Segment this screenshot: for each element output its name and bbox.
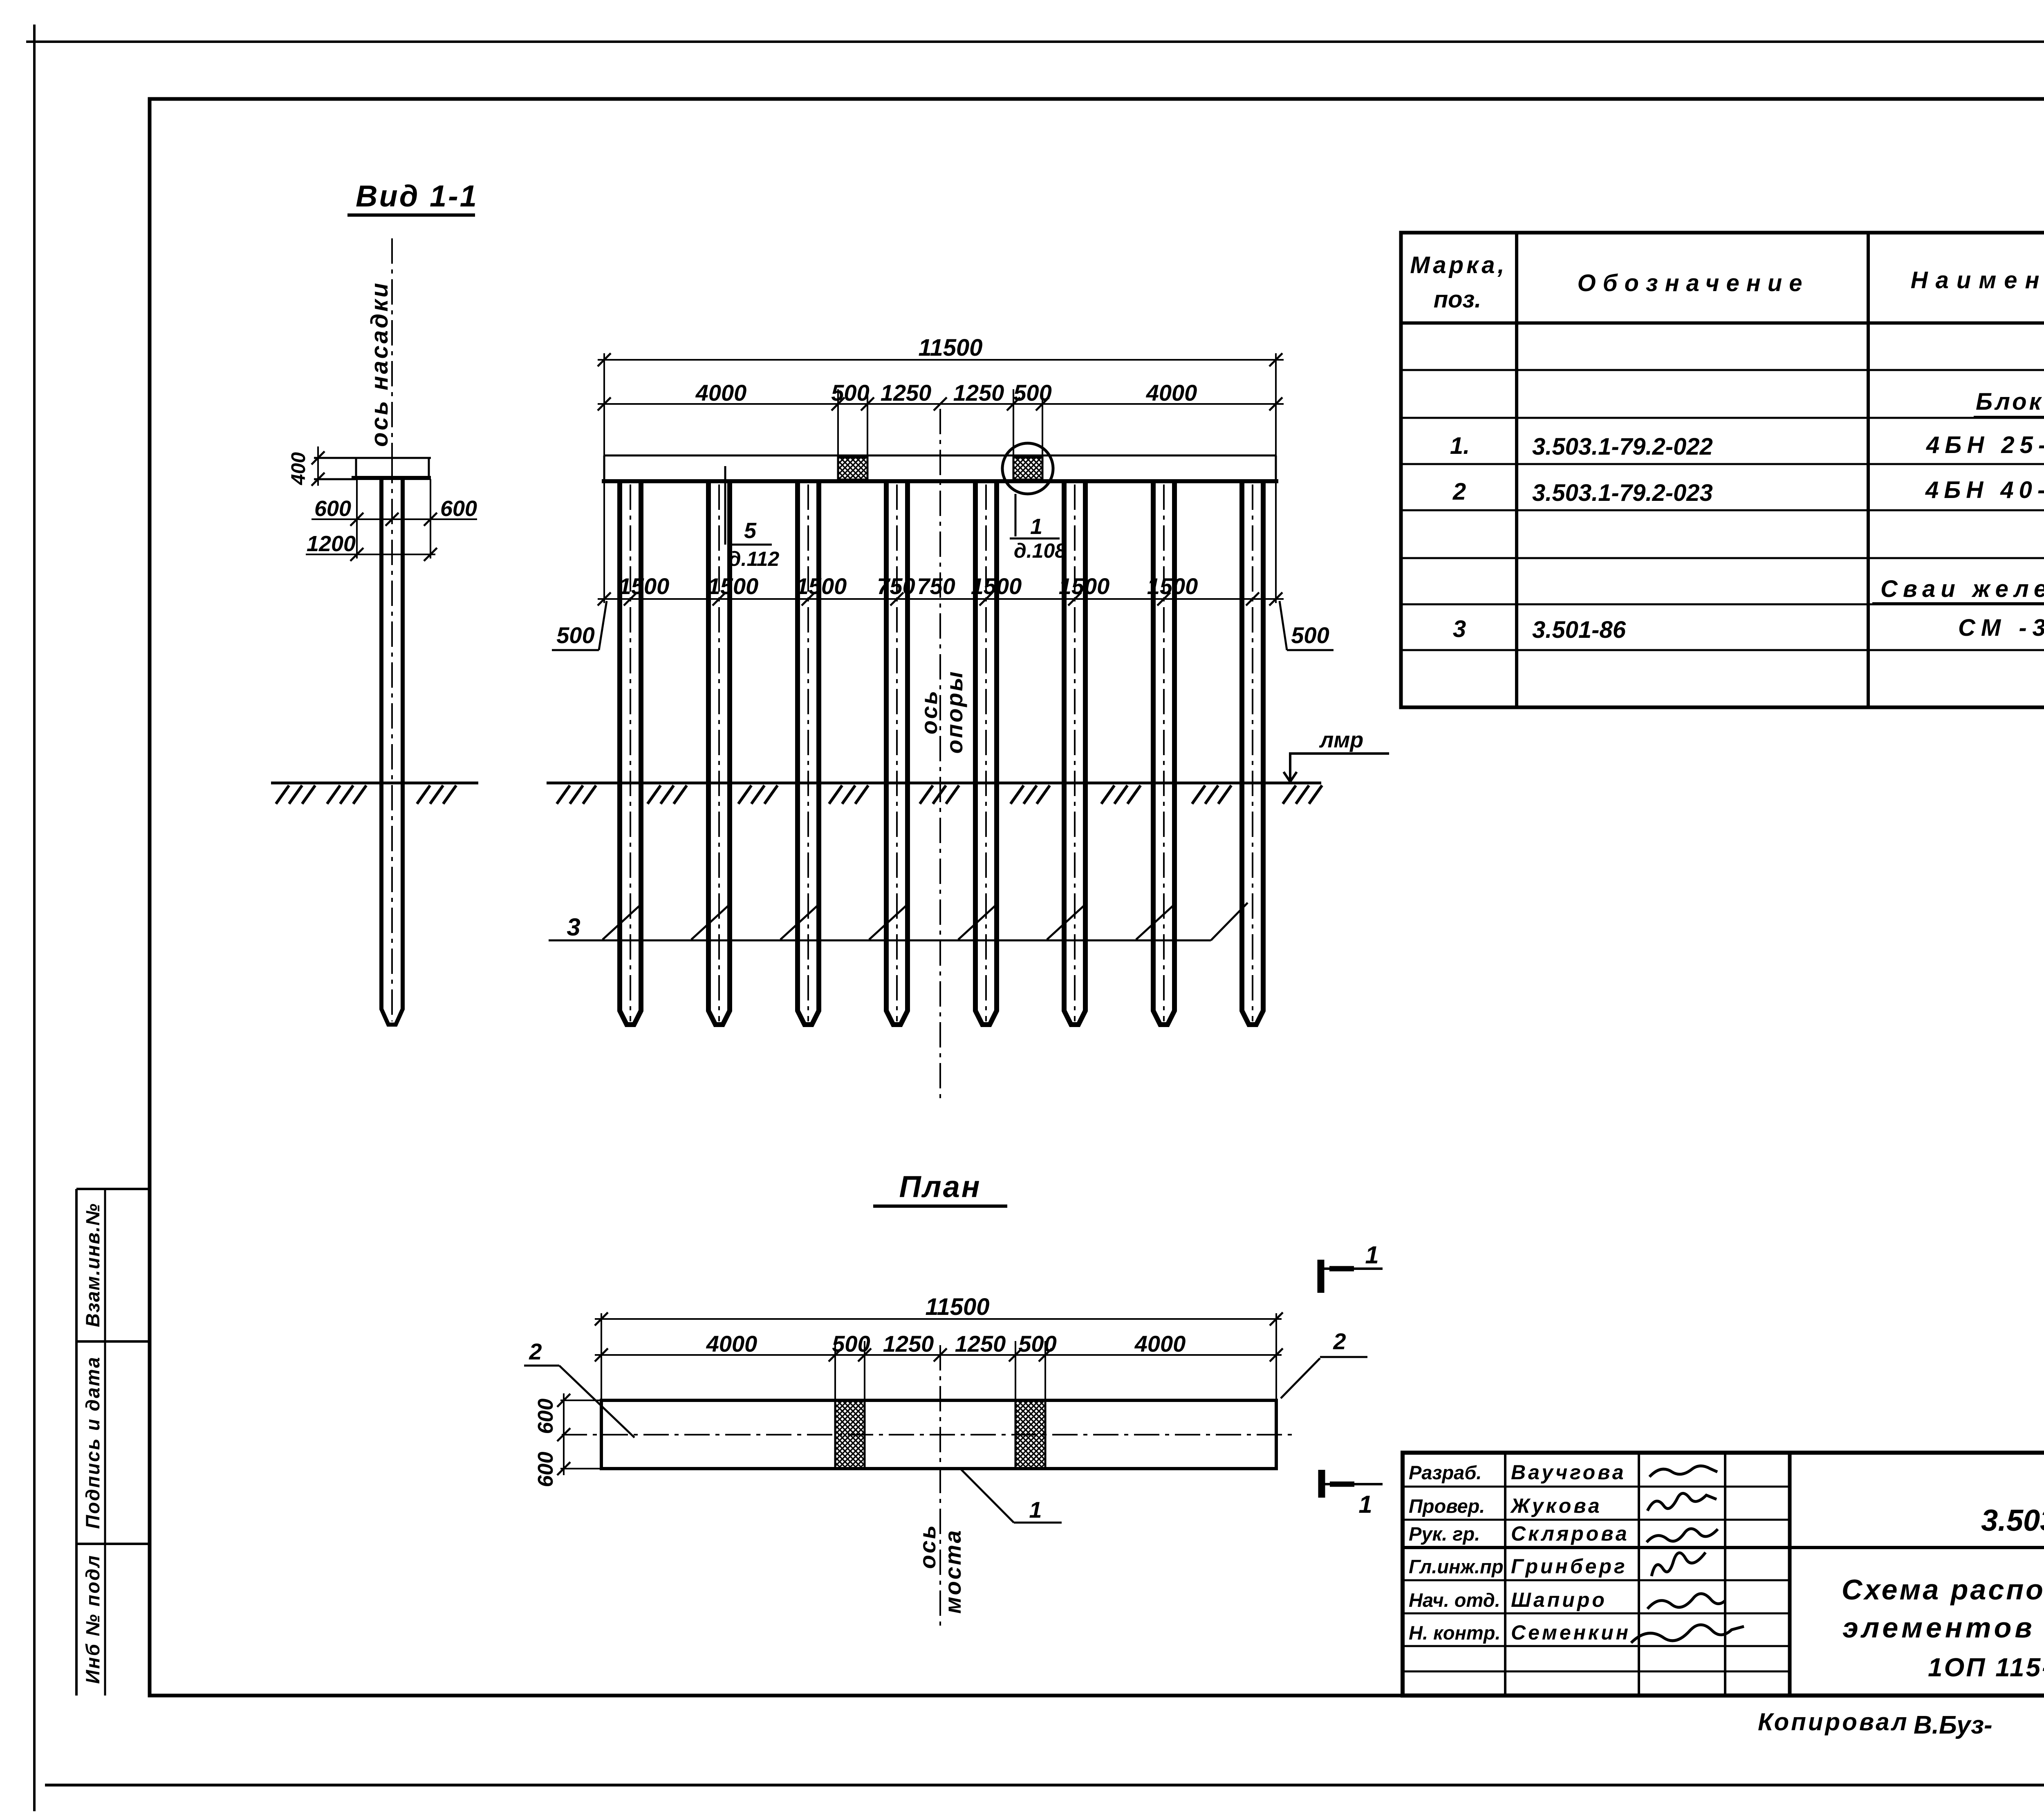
svg-text:1: 1 [1030, 514, 1042, 539]
pile of view 1-1 [381, 478, 403, 1025]
svg-text:1: 1 [1029, 1497, 1042, 1523]
dimension row 4000 500 1250 1250 500 4000 (plan) [595, 1354, 1282, 1356]
svg-text:4БН 40-1-1: 4БН 40-1-1 [1925, 477, 2044, 503]
svg-text:3: 3 [567, 913, 580, 941]
svg-text:750: 750 [917, 573, 955, 599]
pile spacing dimension row 1500... [598, 598, 1284, 600]
sidebar stamp box [75, 1189, 78, 1696]
svg-text:ось насадки: ось насадки [366, 281, 393, 447]
bridge axis (ось моста) [939, 1345, 941, 1631]
svg-text:д.112: д.112 [728, 547, 780, 570]
svg-text:4000: 4000 [706, 1331, 758, 1357]
svg-text:5: 5 [744, 518, 757, 543]
dimension 600 600 [312, 518, 477, 520]
pile 7 (elevation) [1153, 482, 1174, 1025]
svg-text:ось: ось [916, 689, 942, 735]
svg-text:Рук. гр.: Рук. гр. [1409, 1523, 1480, 1545]
plan hatched block left [835, 1400, 865, 1469]
title block frame [1403, 1453, 2044, 1696]
cap beam (elevation) [604, 455, 1276, 457]
ground line under view 1-1 [271, 782, 478, 785]
svg-text:Вид 1-1: Вид 1-1 [356, 179, 478, 213]
signature [1647, 1493, 1717, 1511]
pile 4 (elevation) [886, 482, 908, 1025]
pile 1 (elevation) [620, 482, 641, 1025]
svg-text:Гринберг: Гринберг [1511, 1555, 1627, 1578]
plan centerline [562, 1434, 1295, 1435]
svg-text:Шапиро: Шапиро [1511, 1588, 1607, 1611]
svg-text:опоры: опоры [941, 670, 967, 754]
section mark 1 top [1318, 1260, 1325, 1293]
svg-text:Жукова: Жукова [1510, 1494, 1602, 1517]
pier axis (ось опоры) [939, 409, 941, 1100]
signature [1650, 1466, 1717, 1477]
outer border top line [26, 40, 2044, 43]
dimension 11500 (elevation) [598, 359, 1284, 361]
svg-text:1500: 1500 [1059, 573, 1110, 599]
svg-text:500: 500 [831, 380, 869, 406]
leader 1/д.108 [1015, 494, 1017, 536]
svg-text:Гл.инж.пр: Гл.инж.пр [1409, 1556, 1504, 1577]
svg-text:3.501-86: 3.501-86 [1532, 617, 1626, 643]
pile 5 (elevation) [975, 482, 997, 1025]
svg-text:3: 3 [1453, 616, 1466, 642]
svg-text:Нач. отд.: Нач. отд. [1409, 1589, 1500, 1611]
svg-text:Наименование: Наименование [1911, 267, 2044, 294]
extension lines cap edges [356, 479, 358, 558]
pile 2 (elevation) [708, 482, 730, 1025]
svg-text:1200: 1200 [307, 532, 356, 556]
svg-text:11500: 11500 [919, 334, 983, 361]
dimension 400 (cap height) [317, 446, 319, 486]
svg-text:2: 2 [1333, 1328, 1346, 1354]
svg-text:План: План [899, 1170, 981, 1204]
outer border bottom line [45, 1784, 2044, 1787]
pile 3 (elevation) [798, 482, 819, 1025]
svg-text:3.503.1-79.2-023: 3.503.1-79.2-023 [1532, 480, 1713, 506]
detail circle [1002, 443, 1053, 494]
svg-text:Провер.: Провер. [1409, 1495, 1485, 1517]
svg-text:4БН 25-1-3: 4БН 25-1-3 [1926, 432, 2044, 458]
section mark 1 bottom [1318, 1470, 1325, 1498]
svg-text:В.Буз-: В.Буз- [1914, 1711, 1992, 1739]
svg-text:моста: моста [940, 1529, 966, 1614]
svg-text:1500: 1500 [971, 573, 1022, 599]
svg-text:элементов опоры: элементов опоры [1842, 1612, 2044, 1644]
components table frame [1401, 233, 2044, 707]
svg-text:2: 2 [1452, 478, 1466, 505]
svg-text:1: 1 [1365, 1241, 1378, 1269]
dimension 11500 (plan) [595, 1318, 1282, 1320]
leader 1 (plan) [961, 1469, 1014, 1523]
svg-text:4000: 4000 [1134, 1331, 1186, 1357]
svg-text:Подпись и дата: Подпись и дата [82, 1356, 103, 1529]
svg-text:600: 600 [534, 1452, 558, 1487]
svg-text:Марка,: Марка, [1410, 252, 1507, 278]
svg-text:Разраб.: Разраб. [1409, 1462, 1481, 1483]
svg-text:750: 750 [877, 573, 915, 599]
svg-text:д.108: д.108 [1014, 539, 1066, 562]
svg-text:4000: 4000 [695, 380, 747, 406]
svg-text:3.503.1-79.2-022: 3.503.1-79.2-022 [1532, 433, 1713, 460]
svg-text:1.: 1. [1450, 433, 1470, 459]
ground line (elevation) [547, 782, 1321, 785]
svg-text:Ваучгова: Ваучгова [1511, 1461, 1626, 1484]
hatched block joint left [838, 458, 867, 480]
svg-text:500: 500 [556, 622, 594, 648]
svg-text:Инб № подл: Инб № подл [82, 1554, 103, 1684]
axis of cap (ось насадки) centerline [391, 238, 393, 458]
svg-text:3.503.1-79.1-067: 3.503.1-79.1-067 [1981, 1503, 2044, 1537]
outer border left line [33, 25, 36, 1811]
dimension 1200 [306, 554, 435, 555]
pile 6 (elevation) [1064, 482, 1085, 1025]
svg-text:ось: ось [914, 1524, 940, 1569]
svg-text:1250: 1250 [955, 1331, 1006, 1357]
svg-text:1250: 1250 [883, 1331, 934, 1357]
svg-text:1500: 1500 [619, 573, 670, 599]
plan cap outline [601, 1400, 1276, 1469]
svg-text:Сваи железобетонные: Сваи железобетонные [1880, 576, 2044, 602]
svg-text:Н. контр.: Н. контр. [1409, 1622, 1501, 1644]
leader 5/д.112 [724, 466, 726, 545]
cap block (насадка) of view 1-1 [314, 457, 431, 459]
hatched block joint right (detail 1) [1013, 458, 1042, 480]
signature [1647, 1594, 1725, 1609]
plan hatched block right [1015, 1400, 1045, 1469]
svg-text:600: 600 [440, 496, 477, 521]
svg-text:500: 500 [1018, 1331, 1056, 1357]
dimension row 4000 500 1250 1250 500 4000 (elevation) [598, 403, 1284, 405]
svg-text:1500: 1500 [796, 573, 847, 599]
svg-text:Блоки насадки: Блоки насадки [1976, 388, 2044, 415]
svg-text:600: 600 [314, 496, 351, 521]
svg-text:Копировал: Копировал [1758, 1708, 1909, 1736]
svg-text:Склярова: Склярова [1511, 1522, 1629, 1545]
svg-text:поз.: поз. [1434, 286, 1481, 313]
svg-text:Семенкин: Семенкин [1511, 1621, 1631, 1644]
svg-text:4000: 4000 [1146, 380, 1197, 406]
svg-text:СМ -35Т: СМ -35Т [1958, 615, 2044, 641]
svg-text:1: 1 [1358, 1491, 1372, 1518]
svg-text:500: 500 [1013, 380, 1051, 406]
svg-text:1500: 1500 [708, 573, 759, 599]
svg-text:400: 400 [288, 452, 309, 485]
svg-text:11500: 11500 [926, 1294, 990, 1320]
svg-text:1ОП 115-1: 1ОП 115-1 [1928, 1653, 2044, 1682]
svg-text:Обозначение: Обозначение [1578, 270, 1809, 296]
svg-text:2: 2 [529, 1339, 542, 1364]
signature [1652, 1552, 1706, 1576]
svg-text:Взам.инв.№: Взам.инв.№ [82, 1203, 103, 1327]
svg-text:500: 500 [1291, 622, 1329, 648]
signature [1647, 1529, 1718, 1542]
svg-text:Схема расположения: Схема расположения [1842, 1574, 2044, 1606]
dimension 600 600 (plan) [563, 1393, 565, 1475]
svg-text:лмр: лмр [1319, 728, 1364, 752]
svg-text:1250: 1250 [881, 380, 932, 406]
svg-text:600: 600 [534, 1399, 558, 1434]
svg-text:1500: 1500 [1147, 573, 1198, 599]
svg-text:1250: 1250 [953, 380, 1004, 406]
signature [1631, 1625, 1744, 1643]
pile 8 (elevation) [1242, 482, 1263, 1025]
